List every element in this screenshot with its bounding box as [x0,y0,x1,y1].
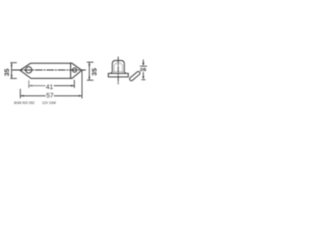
svg-text:35: 35 [91,68,98,76]
svg-text:8GM 002 092: 8GM 002 092 [14,101,35,105]
svg-text:12V 10W: 12V 10W [42,101,57,105]
svg-text:41: 41 [46,84,54,91]
svg-text:57: 57 [46,92,54,99]
svg-text:26: 26 [140,68,147,73]
svg-text:35: 35 [4,68,11,76]
